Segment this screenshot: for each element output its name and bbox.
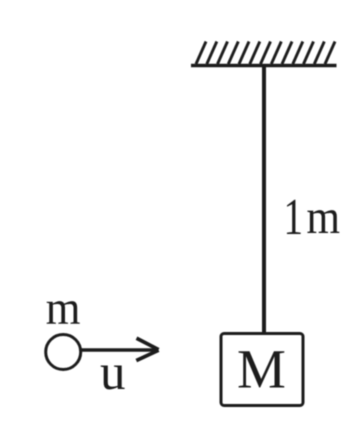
ceiling line — [191, 64, 337, 68]
svg-text:u: u — [100, 345, 126, 401]
velocity arrow u shaft — [81, 348, 157, 352]
label 1 m : digit 1 — [284, 187, 304, 245]
ball m — [46, 335, 81, 370]
ceiling hatch marks — [196, 42, 335, 65]
svg-text:1: 1 — [284, 187, 304, 245]
string (length 1 m) — [262, 65, 266, 333]
label m — [46, 282, 81, 335]
velocity arrow u head — [137, 338, 159, 349]
block M box — [221, 334, 303, 406]
svg-text:m: m — [307, 189, 341, 243]
label 1 m : letter m — [307, 189, 341, 243]
svg-text:M: M — [237, 338, 286, 399]
svg-text:m: m — [46, 282, 81, 335]
